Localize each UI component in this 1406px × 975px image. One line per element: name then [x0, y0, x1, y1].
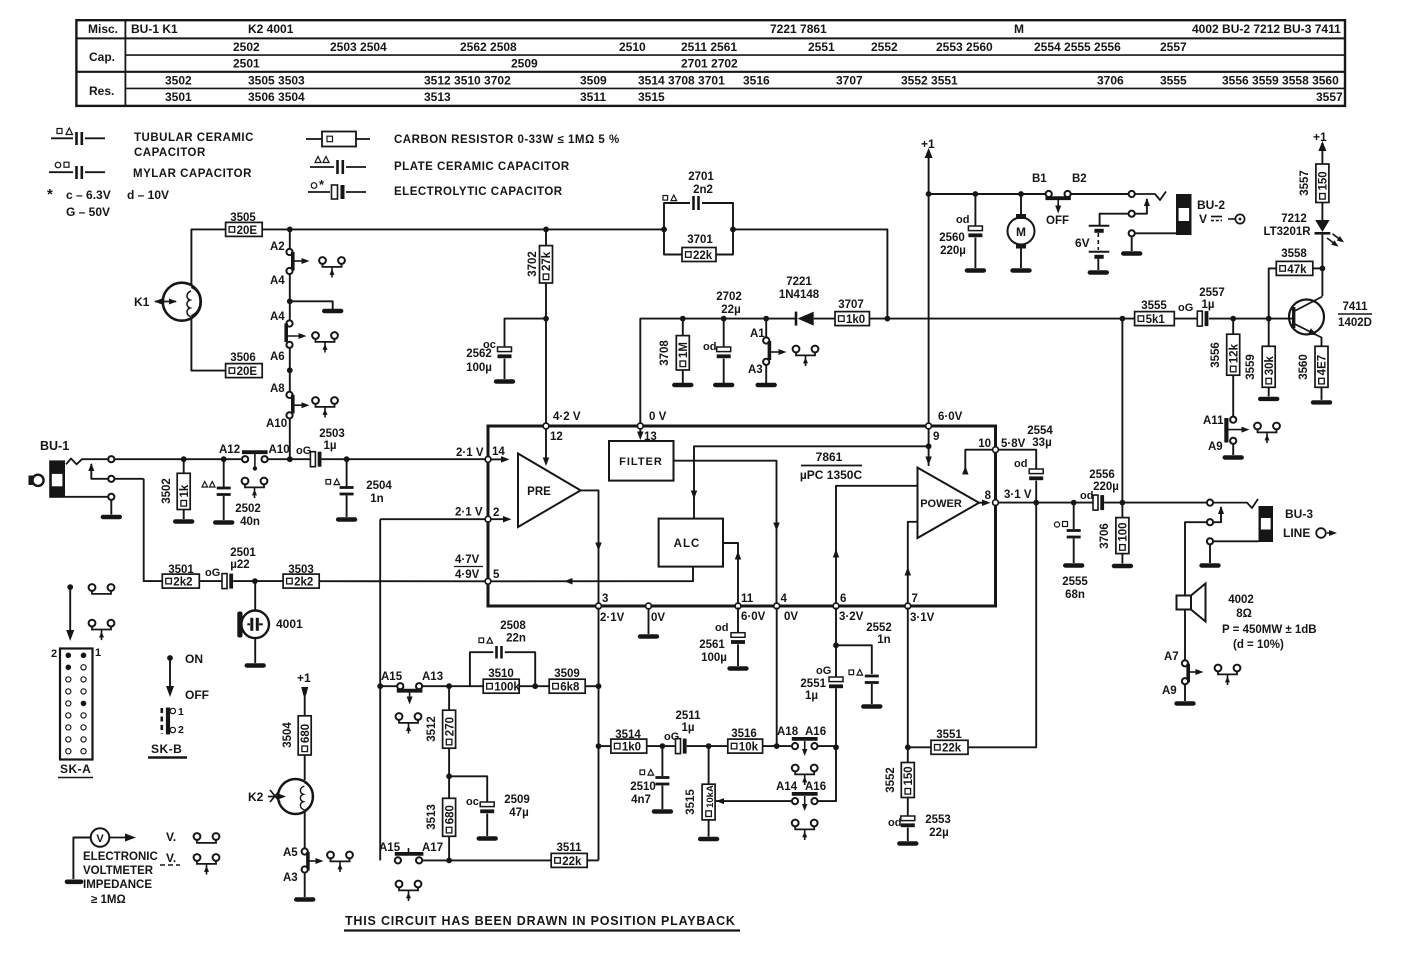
svg-text:d – 10V: d – 10V — [127, 188, 169, 202]
legend carbon resistor symbol — [306, 138, 322, 140]
svg-text:3555: 3555 — [1141, 300, 1167, 312]
svg-text:V.: V. — [166, 851, 176, 865]
loudspeaker 4002 — [1177, 596, 1192, 610]
svg-text:100: 100 — [1118, 522, 1130, 541]
wire pin3 to 3514 — [599, 745, 611, 747]
svg-text:TUBULAR CERAMIC: TUBULAR CERAMIC — [134, 132, 254, 144]
wire A10 down to input bus — [289, 418, 291, 459]
capacitor 2510 4n7 — [661, 746, 663, 776]
svg-text:A17: A17 — [422, 842, 443, 854]
wire pin6 column down — [835, 608, 837, 678]
svg-text:CAPACITOR: CAPACITOR — [134, 147, 206, 159]
wire 3558 left down to base node — [1269, 268, 1277, 318]
svg-text:2561: 2561 — [699, 639, 725, 651]
svg-text:A12: A12 — [219, 444, 240, 456]
svg-text:3505: 3505 — [230, 212, 256, 224]
resistor 3702 27k — [545, 229, 547, 245]
wire A6 to 3506 node — [289, 348, 291, 371]
contact BU-1 tip — [108, 456, 114, 462]
wire 2556 to BU-3 — [1104, 502, 1207, 504]
svg-text:68n: 68n — [1065, 589, 1085, 601]
svg-text:3706: 3706 — [1097, 74, 1124, 88]
switch A5-A3 — [302, 848, 308, 854]
svg-text:1n: 1n — [877, 634, 890, 646]
node 3706 top wire — [1120, 500, 1126, 506]
svg-text:2554: 2554 — [1027, 425, 1053, 437]
parts table frame — [76, 20, 1345, 106]
svg-text:µ22: µ22 — [230, 559, 249, 571]
ground A9 right — [1225, 455, 1242, 459]
svg-text:3557: 3557 — [1316, 90, 1343, 104]
svg-text:40n: 40n — [240, 516, 260, 528]
wire A12 to ladder node — [268, 458, 288, 460]
svg-text:4: 4 — [781, 593, 788, 605]
svg-text:2701: 2701 — [688, 171, 714, 183]
svg-text:1µ: 1µ — [323, 440, 336, 452]
svg-text:2·1 V: 2·1 V — [455, 507, 483, 519]
resistor 3516 10k — [728, 739, 763, 753]
svg-text:A11: A11 — [1203, 415, 1224, 427]
capacitor 2552 1n bottom — [865, 675, 879, 678]
node collector 3558 — [1320, 266, 1326, 272]
wire pin9 into POWER — [928, 428, 930, 467]
svg-text:6·0V: 6·0V — [741, 611, 766, 623]
svg-text:0 V: 0 V — [649, 411, 667, 423]
wire pin12 down into PRE — [545, 428, 547, 461]
release contacts A1-A3 — [793, 346, 800, 353]
svg-text:2501: 2501 — [233, 57, 260, 71]
contact BU-2 sleeve — [1129, 230, 1135, 236]
arrow SK-A press — [67, 584, 73, 590]
svg-text:V: V — [96, 833, 104, 845]
svg-text:3506 3504: 3506 3504 — [248, 90, 305, 104]
wire pin14 into PRE — [491, 458, 505, 460]
resistor 3552 150 — [907, 747, 909, 762]
svg-text:oG: oG — [664, 731, 679, 743]
pin 11 — [735, 603, 741, 609]
jack spring BU-1 — [66, 459, 109, 465]
svg-text:3514 3708 3701: 3514 3708 3701 — [638, 74, 725, 88]
svg-text:7221: 7221 — [786, 276, 812, 288]
wire pin10 to 2554 — [998, 450, 1036, 469]
svg-text:A15: A15 — [381, 671, 403, 683]
svg-text:1µ: 1µ — [1201, 299, 1214, 311]
svg-text:22k: 22k — [942, 743, 962, 755]
ground voltmeter — [67, 879, 81, 884]
ground 0V stub — [648, 609, 650, 634]
svg-text:A9: A9 — [1162, 685, 1177, 697]
svg-text:oc: oc — [466, 796, 479, 808]
svg-text:0V: 0V — [651, 612, 665, 624]
svg-text:4002: 4002 — [1228, 594, 1254, 606]
svg-text:K1: K1 — [134, 295, 150, 309]
LED 7212 LT3201R — [1321, 203, 1323, 221]
svg-text:3·2V: 3·2V — [839, 611, 864, 623]
pin 8 — [993, 500, 999, 506]
svg-text:6k8: 6k8 — [560, 682, 580, 694]
wire pin2 column down — [379, 519, 381, 860]
svg-text:LT3201R: LT3201R — [1263, 226, 1311, 238]
svg-text:VOLTMETER: VOLTMETER — [83, 865, 154, 877]
svg-text:3706: 3706 — [1099, 523, 1111, 549]
marker 2504 tubular — [326, 480, 331, 485]
svg-text:3·1 V: 3·1 V — [1004, 489, 1032, 501]
svg-text:Misc.: Misc. — [88, 22, 118, 36]
wire A16 to pin6 column — [817, 745, 836, 747]
node 3708 top — [680, 316, 686, 322]
node A1 top — [763, 316, 769, 322]
resistor 3559 30k — [1268, 319, 1270, 347]
svg-text:c – 6.3V: c – 6.3V — [66, 188, 111, 202]
svg-text:FILTER: FILTER — [619, 456, 663, 468]
svg-text:oG: oG — [296, 445, 311, 457]
svg-text:8: 8 — [985, 490, 992, 502]
node at 3505 output — [287, 227, 293, 233]
wire battery to contact — [1100, 214, 1129, 225]
svg-text:2556: 2556 — [1089, 469, 1115, 481]
release contacts SK-A row1 — [89, 584, 96, 591]
svg-text:7221 7861: 7221 7861 — [770, 22, 827, 36]
svg-text:2502: 2502 — [235, 503, 261, 515]
svg-text:22k: 22k — [693, 250, 713, 262]
wire emitter to 3560 — [1321, 337, 1323, 346]
svg-text:3513: 3513 — [424, 90, 451, 104]
op-amp POWER triangle — [918, 468, 980, 538]
marker 2508 — [479, 638, 484, 643]
contact BU-3 tip — [1207, 500, 1213, 506]
capacitor 2509 47u — [449, 776, 487, 802]
wire top bus 3505 node to 2701 loop — [290, 228, 664, 230]
svg-text:2502: 2502 — [233, 40, 260, 54]
capacitor 2554 33u — [1029, 469, 1043, 474]
svg-text:1n: 1n — [370, 493, 383, 505]
svg-text:M: M — [1016, 225, 1026, 239]
switch A1-A3 — [765, 319, 767, 338]
svg-text:3559: 3559 — [1245, 354, 1257, 380]
svg-text:V.: V. — [166, 830, 176, 844]
svg-text:0V: 0V — [784, 611, 798, 623]
svg-text:A6: A6 — [270, 351, 285, 363]
svg-text:1k: 1k — [179, 484, 191, 497]
svg-text:A2: A2 — [270, 241, 285, 253]
svg-text:2510: 2510 — [619, 40, 646, 54]
node 2560 top — [973, 191, 979, 197]
switch A12-A10 — [242, 456, 248, 462]
svg-text:2557: 2557 — [1199, 287, 1225, 299]
wire sleeve to BU-2 body — [1135, 232, 1177, 234]
marker 2701 tubular — [663, 196, 668, 201]
resistor 3504 680 — [298, 716, 311, 755]
wire pin3 column down — [598, 608, 600, 861]
svg-text:2553: 2553 — [925, 814, 951, 826]
svg-text:2511: 2511 — [676, 710, 702, 722]
node 3702 top — [543, 227, 549, 233]
svg-text:7212: 7212 — [1281, 213, 1307, 225]
wire pin13 down into FILTER — [639, 428, 641, 436]
wire A15-A13 row left — [380, 685, 397, 687]
capacitor 2557 1u — [1197, 311, 1202, 326]
svg-text:3707: 3707 — [838, 299, 864, 311]
wire pin6 into POWER — [836, 486, 918, 604]
wire pin7 column — [907, 608, 909, 748]
svg-text:33µ: 33µ — [1032, 437, 1051, 449]
ground motor — [1013, 268, 1030, 272]
svg-text:1402D: 1402D — [1338, 317, 1372, 329]
resistor 3514 1k0 — [611, 739, 647, 753]
svg-text:2551: 2551 — [800, 678, 826, 690]
svg-text:6: 6 — [840, 593, 846, 605]
svg-text:3505 3503: 3505 3503 — [248, 74, 305, 88]
svg-text:3513: 3513 — [426, 804, 438, 830]
svg-text:5·8V: 5·8V — [1001, 438, 1026, 450]
svg-text:A13: A13 — [422, 671, 443, 683]
wire ring contact down to 3501 — [114, 478, 144, 480]
resistor 3701 22k loop — [664, 229, 682, 254]
wire BU-3 mid to speaker column — [1185, 522, 1207, 595]
svg-text:2510: 2510 — [630, 781, 656, 793]
node 2554 bottom — [1033, 500, 1039, 506]
svg-text:3: 3 — [602, 593, 608, 605]
motor M — [1020, 194, 1022, 215]
release contacts A11-A9 — [1254, 423, 1261, 430]
svg-text:M: M — [1014, 22, 1024, 36]
legend plate ceramic symbol — [315, 157, 321, 163]
jack spring BU-3 — [1213, 499, 1258, 508]
resistor 3511 22k — [551, 853, 587, 867]
svg-text:3501: 3501 — [165, 90, 192, 104]
head K2 — [278, 779, 313, 814]
svg-text:5: 5 — [493, 569, 500, 581]
svg-text:3504: 3504 — [282, 722, 294, 748]
legend tubular ceramic capacitor symbol — [51, 137, 73, 139]
svg-text:A15: A15 — [379, 842, 401, 854]
capacitor 2560 220u — [974, 194, 976, 226]
svg-text:2701 2702: 2701 2702 — [681, 57, 738, 71]
capacitor 2502 40n — [223, 459, 225, 487]
contact BU-1 sleeve — [108, 494, 114, 500]
svg-text:od: od — [1080, 490, 1093, 502]
svg-text:+1: +1 — [1313, 130, 1327, 144]
wire 3706 column — [1121, 319, 1123, 518]
wire node to 2503 — [290, 458, 310, 460]
svg-text:A5: A5 — [283, 847, 298, 859]
svg-text:2501: 2501 — [230, 547, 256, 559]
wire K1 bottom to resistor 3506 — [191, 319, 225, 371]
resistor 3560 4E7 — [1315, 346, 1328, 387]
connector SK-A — [60, 649, 93, 760]
switch SK-B symbol — [161, 708, 164, 734]
wire 3503 to IC pin 5 — [319, 580, 486, 582]
svg-text:V: V — [1199, 212, 1207, 226]
contact BU-3 sleeve — [1207, 538, 1213, 544]
svg-text:3516: 3516 — [731, 728, 757, 740]
svg-text:IMPEDANCE: IMPEDANCE — [83, 879, 152, 891]
capacitor 2551 1u — [829, 677, 843, 682]
ground 2555 — [1065, 563, 1082, 567]
wire 3504 to K2 — [304, 755, 306, 780]
svg-text:100µ: 100µ — [701, 652, 727, 664]
svg-text:4·7V: 4·7V — [455, 554, 480, 566]
pin 2 — [485, 516, 491, 522]
node 3514 row left — [596, 743, 602, 749]
node 2701 left — [661, 227, 667, 233]
caption underline — [344, 929, 740, 931]
resistor 3557 150 — [1316, 164, 1329, 203]
ground battery — [1090, 270, 1107, 274]
wire 3509 to pin3 column — [585, 685, 598, 687]
pin 9 — [926, 423, 932, 429]
wire input bus tip to A12 — [114, 458, 242, 460]
pin 14 — [485, 457, 491, 463]
release contacts SK-A row2 — [89, 620, 96, 627]
node 3513 bottom — [446, 858, 452, 864]
ground 3706 — [1121, 554, 1123, 564]
marker 2555 — [1054, 522, 1059, 527]
svg-text:8Ω: 8Ω — [1236, 608, 1252, 620]
wire K1 top to resistor 3505 — [191, 229, 225, 285]
svg-text:3511: 3511 — [580, 90, 606, 104]
svg-text:A10: A10 — [266, 418, 287, 430]
node A15 column — [377, 683, 383, 689]
svg-text:K2: K2 — [248, 790, 264, 804]
svg-text:ELECTROLYTIC CAPACITOR: ELECTROLYTIC CAPACITOR — [394, 186, 563, 198]
svg-text:3558: 3558 — [1281, 248, 1307, 260]
node 2504 top — [344, 456, 350, 462]
svg-text:ALC: ALC — [674, 538, 701, 550]
svg-text:od: od — [888, 817, 901, 829]
svg-text:2509: 2509 — [511, 57, 538, 71]
wire 3516 to A18 — [763, 745, 793, 747]
wire 2503 to IC pin 14 — [322, 458, 486, 460]
wire K2 to A5 — [304, 811, 306, 850]
release contacts A5-A3 — [327, 852, 334, 859]
node 3515 top — [706, 743, 712, 749]
svg-text:G – 50V: G – 50V — [66, 205, 110, 219]
ground 3502 — [183, 510, 185, 520]
svg-text:4E7: 4E7 — [1317, 355, 1329, 375]
svg-text:3515: 3515 — [685, 789, 697, 815]
node pin4 column join — [774, 743, 780, 749]
wire BU-1 sleeve — [65, 496, 109, 498]
pin 7 — [905, 603, 911, 609]
wire 2552 branch — [836, 645, 872, 674]
svg-text:1: 1 — [95, 647, 101, 659]
wire 3555 to 2557 — [1174, 318, 1197, 320]
ground 2504 — [338, 517, 355, 521]
voltmeter symbol — [73, 838, 90, 880]
svg-text:2552: 2552 — [866, 622, 892, 634]
svg-text:4n7: 4n7 — [631, 794, 651, 806]
connector BU-2 body — [1176, 194, 1192, 235]
svg-text:≥ 1MΩ: ≥ 1MΩ — [91, 894, 126, 906]
svg-text:3502: 3502 — [165, 74, 192, 88]
wire 3505 to node and A-ladder top — [262, 228, 290, 230]
svg-text:1k0: 1k0 — [622, 742, 641, 754]
resistor 3556 12k — [1232, 319, 1234, 335]
wire 2551 to A16 node — [835, 688, 837, 747]
svg-text:4·2 V: 4·2 V — [553, 411, 581, 423]
wire 2501 to 3503 — [233, 580, 283, 582]
switch A15-A13 — [397, 683, 403, 689]
svg-text:150: 150 — [1318, 171, 1330, 190]
wire speaker to A7 — [1184, 610, 1186, 661]
svg-text:3556 3559 3558 3560: 3556 3559 3558 3560 — [1222, 74, 1339, 88]
wire 3558 right to LED line — [1313, 267, 1323, 269]
svg-text:7: 7 — [912, 593, 918, 605]
block ALC — [659, 519, 723, 567]
svg-text:1M: 1M — [678, 342, 690, 358]
wire internal top bus to POWER — [694, 446, 929, 518]
svg-text:20E: 20E — [237, 225, 258, 237]
svg-text:THIS CIRCUIT HAS BEEN DRAW: THIS CIRCUIT HAS BEEN DRAWN IN POSITION … — [345, 914, 736, 928]
wire 3551 left — [908, 746, 931, 748]
svg-text:3510: 3510 — [488, 668, 514, 680]
svg-text:3516: 3516 — [743, 74, 770, 88]
capacitor 2508 22n loop — [470, 652, 493, 686]
capacitor 2504 1n — [346, 459, 348, 486]
resistor 3558 47k — [1276, 261, 1313, 275]
svg-text:2554 2555 2556: 2554 2555 2556 — [1034, 40, 1121, 54]
svg-text:POWER: POWER — [920, 498, 962, 510]
svg-text:+1: +1 — [921, 137, 935, 151]
svg-text:µPC 1350C: µPC 1350C — [800, 468, 863, 482]
svg-text:680: 680 — [444, 805, 456, 824]
svg-text:4001: 4001 — [276, 617, 303, 631]
wire A17 to 3511 — [422, 859, 551, 861]
svg-text:4002 BU-2 7212 BU-3 7411: 4002 BU-2 7212 BU-3 7411 — [1192, 22, 1341, 36]
wire 3511 to pin3 column — [587, 859, 598, 861]
wire ALC output to pin11 — [723, 543, 738, 604]
svg-text:2: 2 — [178, 724, 184, 736]
svg-text:Res.: Res. — [89, 84, 114, 98]
svg-text:*: * — [47, 186, 53, 203]
node 3706 branch top — [1120, 316, 1126, 322]
svg-text:LINE: LINE — [1283, 526, 1310, 540]
ground A7-A9 — [1177, 701, 1194, 705]
ground 2560 — [967, 268, 984, 272]
svg-text:2: 2 — [51, 648, 57, 660]
wire B2 to BU-2 jack — [1071, 193, 1129, 195]
resistor 3506 20E — [226, 364, 263, 378]
capacitor 2562 100u electrolytic — [498, 347, 512, 352]
release contacts A14-A16 — [792, 820, 799, 827]
svg-text:2·1V: 2·1V — [600, 612, 625, 624]
wire A4 to ground branch node — [289, 274, 291, 301]
ground 2561 — [730, 666, 747, 670]
svg-text:3·1V: 3·1V — [910, 612, 935, 624]
diode 7221 1N4148 — [798, 312, 814, 326]
capacitor 2503 1u — [310, 452, 315, 467]
svg-text:22k: 22k — [562, 856, 582, 868]
capacitor 2555 68n — [1073, 503, 1075, 529]
svg-text:22µ: 22µ — [929, 827, 948, 839]
capacitor 2702 22u — [723, 319, 725, 347]
svg-text:2k2: 2k2 — [294, 577, 313, 589]
svg-text:SK-B: SK-B — [151, 742, 182, 756]
svg-text:(d = 10%): (d = 10%) — [1233, 639, 1284, 651]
svg-text:od: od — [1014, 458, 1027, 470]
switch A7-A9 — [1182, 660, 1188, 666]
svg-text:1k0: 1k0 — [846, 314, 865, 326]
svg-text:3560: 3560 — [1298, 354, 1310, 380]
wire 2562 branch — [505, 319, 547, 347]
wire top bus 2701 to corner down to 3707 line — [733, 229, 887, 318]
ground 2552 — [863, 704, 880, 708]
wire to ground at A4 branch — [290, 301, 333, 309]
ground 2553 — [899, 841, 916, 845]
svg-text:A1: A1 — [750, 328, 765, 340]
wire A16 up to pin6 node — [817, 747, 836, 801]
